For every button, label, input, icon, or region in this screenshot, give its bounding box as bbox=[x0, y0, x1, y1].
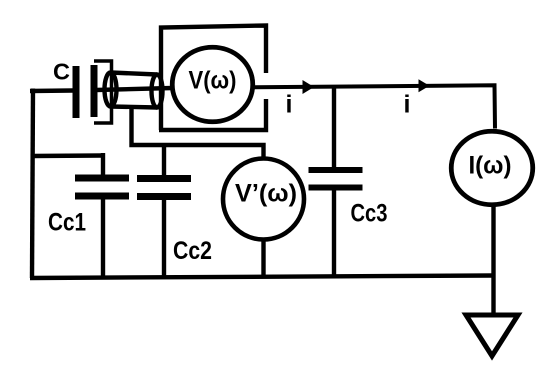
svg-text:C: C bbox=[53, 59, 70, 85]
svg-text:Cc2: Cc2 bbox=[173, 237, 212, 265]
svg-text:V(ω): V(ω) bbox=[189, 67, 237, 95]
svg-text:V’(ω): V’(ω) bbox=[235, 180, 297, 208]
svg-text:I(ω): I(ω) bbox=[469, 152, 512, 180]
svg-text:Cc1: Cc1 bbox=[48, 209, 86, 237]
svg-text:Cc3: Cc3 bbox=[351, 200, 388, 228]
svg-text:i: i bbox=[404, 91, 411, 119]
svg-text:i: i bbox=[286, 91, 293, 119]
